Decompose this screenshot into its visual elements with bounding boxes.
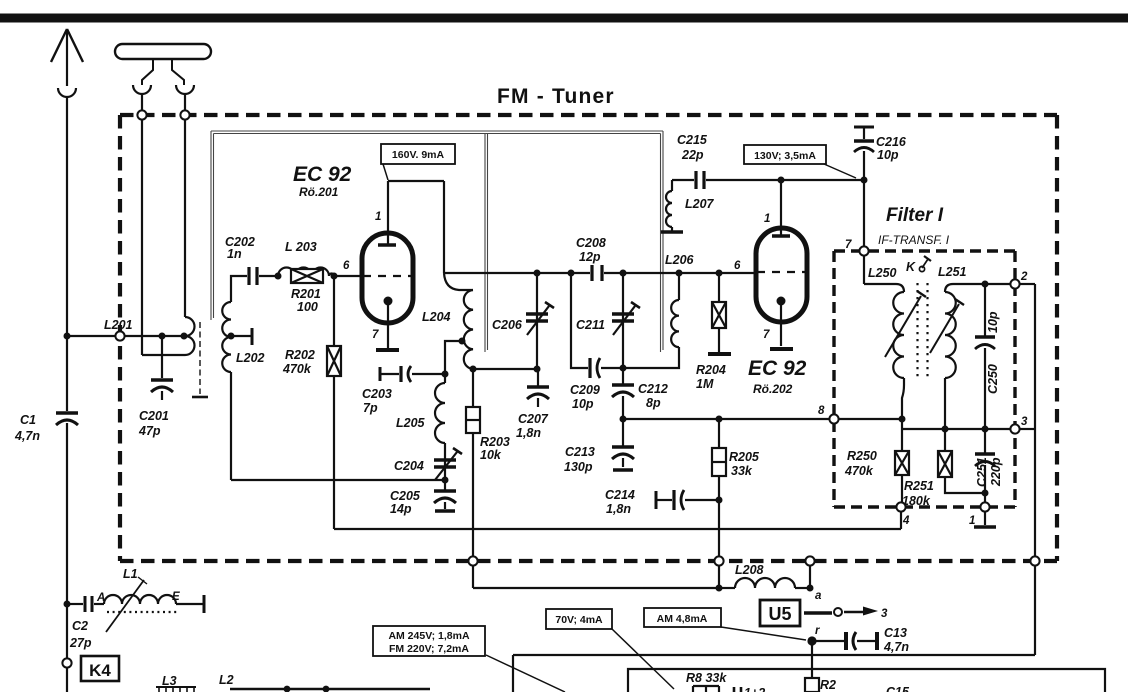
- svg-text:27p: 27p: [69, 636, 92, 650]
- svg-text:C207: C207: [518, 412, 549, 426]
- svg-text:1,8n: 1,8n: [516, 426, 541, 440]
- inductor L250: [868, 266, 926, 378]
- svg-text:E: E: [172, 591, 180, 603]
- svg-text:C214: C214: [605, 488, 635, 502]
- svg-text:L1: L1: [123, 567, 138, 581]
- wire L202 bottom down: [230, 372, 232, 480]
- svg-text:7p: 7p: [363, 401, 378, 415]
- triode EC92 Roe.202: [748, 213, 807, 396]
- svg-text:33k: 33k: [731, 464, 753, 478]
- filter terminal circles: [859, 246, 868, 255]
- trimmer capacitor C204: [394, 374, 462, 480]
- inductor L208: [719, 563, 810, 588]
- capacitor C208: [576, 236, 606, 281]
- svg-text:10p: 10p: [986, 311, 1000, 333]
- svg-text:100: 100: [297, 300, 318, 314]
- junction dots filter: [778, 177, 989, 497]
- svg-text:47p: 47p: [138, 424, 161, 438]
- wire main bus tube1 anode to tube2 grid: [444, 272, 756, 274]
- wire L202 top to C202: [231, 276, 247, 302]
- svg-text:L 203: L 203: [285, 240, 317, 254]
- shield partition (thin): [211, 131, 663, 352]
- label box AM 4,8mA: [644, 608, 806, 640]
- wire dipole leads into FM box: [142, 94, 185, 355]
- svg-text:10p: 10p: [572, 397, 594, 411]
- svg-text:C251: C251: [975, 457, 989, 487]
- ground below node1: [984, 512, 986, 525]
- svg-text:A: A: [96, 592, 105, 604]
- svg-text:22p: 22p: [681, 148, 704, 162]
- coil L3 partial: [156, 674, 196, 692]
- svg-text:C212: C212: [638, 382, 668, 396]
- svg-text:AM 245V; 1,8mA: AM 245V; 1,8mA: [388, 630, 470, 642]
- capacitor C213: [564, 419, 634, 474]
- ferrite antenna L1: [96, 567, 204, 632]
- svg-text:L207: L207: [685, 197, 715, 211]
- resistor R250: [844, 449, 909, 503]
- inductor L206: [665, 253, 695, 347]
- svg-text:C206: C206: [492, 318, 523, 332]
- resistor R202: [282, 276, 341, 529]
- svg-text:C208: C208: [576, 236, 606, 250]
- svg-text:1: 1: [969, 515, 975, 527]
- svg-text:FM - Tuner: FM - Tuner: [497, 85, 615, 108]
- capacitor C202: [225, 235, 278, 285]
- svg-text:3: 3: [881, 608, 888, 620]
- svg-text:C1: C1: [20, 413, 36, 427]
- svg-text:C2: C2: [72, 619, 88, 633]
- wire node a stub: [809, 565, 811, 588]
- svg-text:1+2: 1+2: [744, 686, 765, 692]
- svg-text:R2: R2: [820, 678, 836, 692]
- svg-text:C215: C215: [677, 133, 708, 147]
- wire bottom row y588: [473, 587, 722, 589]
- wire L251 bottom to node3 row: [944, 378, 946, 429]
- FM-Tuner dashed enclosure: [120, 115, 1057, 561]
- svg-text:C211: C211: [576, 318, 605, 332]
- wire r down to R2: [811, 641, 813, 678]
- wire antenna down-lead x67: [66, 97, 68, 692]
- wire node2 to right rail: [1019, 283, 1035, 285]
- inductor L203: [278, 240, 334, 276]
- svg-text:130V; 3,5mA: 130V; 3,5mA: [754, 150, 816, 162]
- svg-text:L206: L206: [665, 253, 695, 267]
- svg-text:3: 3: [1021, 416, 1028, 428]
- inductor L207: [661, 180, 715, 232]
- svg-text:K4: K4: [89, 661, 111, 680]
- adjustable core between L201 and L202: [192, 322, 208, 397]
- switch to 3: [804, 607, 888, 621]
- svg-text:1: 1: [764, 213, 770, 225]
- wire node7 to L250: [864, 255, 904, 292]
- label box 160V 9mA: [381, 144, 455, 180]
- terminal circles on FM box bottom edge: [468, 556, 477, 565]
- capacitor C201: [138, 336, 173, 438]
- svg-text:10k: 10k: [480, 448, 502, 462]
- wire grid to tube1: [334, 275, 360, 277]
- AF unit box: [628, 669, 1105, 692]
- svg-text:14p: 14p: [390, 502, 412, 516]
- svg-text:L208: L208: [735, 563, 764, 577]
- svg-text:1M: 1M: [696, 377, 714, 391]
- triode EC92 Roe.201: [293, 163, 413, 350]
- resistor R203: [466, 369, 510, 588]
- svg-text:220p: 220p: [989, 457, 1003, 487]
- capacitor C207: [516, 369, 549, 440]
- svg-text:10p: 10p: [877, 148, 899, 162]
- wire C204 junction to L202: [231, 479, 445, 481]
- svg-text:L2: L2: [219, 673, 234, 687]
- svg-text:470k: 470k: [282, 362, 312, 376]
- svg-text:4,7n: 4,7n: [14, 429, 40, 443]
- node junction dots left: [64, 273, 338, 340]
- coil L2 partial wire: [219, 673, 430, 692]
- label box AM/FM voltages: [373, 626, 565, 692]
- svg-text:R202: R202: [285, 348, 315, 362]
- svg-text:1: 1: [375, 211, 381, 223]
- label box 70V 4mA: [546, 609, 674, 689]
- label box 130V 3,5mA: [744, 145, 856, 178]
- wire node4 drop to return: [900, 511, 902, 529]
- terminal circle on FM box left edge: [115, 331, 124, 340]
- inductor L251: [930, 265, 967, 378]
- capacitor C214: [605, 488, 719, 516]
- wire anode tube1 up and over to L204: [388, 181, 444, 273]
- wire node8 to R250: [838, 418, 902, 420]
- svg-text:a: a: [815, 590, 822, 602]
- trimmer capacitor C211: [576, 273, 640, 368]
- junction dots bottom left: [64, 601, 71, 608]
- svg-text:R205: R205: [729, 450, 760, 464]
- capacitor C250: [975, 284, 1000, 429]
- wire L204 bottom row: [473, 368, 540, 370]
- svg-text:R201: R201: [291, 287, 321, 301]
- svg-text:1,8n: 1,8n: [606, 502, 631, 516]
- svg-text:12p: 12p: [579, 250, 601, 264]
- svg-text:C13: C13: [884, 626, 907, 640]
- capacitor C13: [812, 626, 909, 654]
- svg-text:R250: R250: [847, 449, 877, 463]
- svg-text:L205: L205: [396, 416, 426, 430]
- wire down to filter node 7: [863, 180, 865, 247]
- inductor L204: [422, 273, 473, 369]
- svg-text:L201: L201: [104, 318, 133, 332]
- dipole antenna symbol: [115, 44, 211, 94]
- capacitor C2: [67, 596, 104, 650]
- capacitor C1: [14, 413, 78, 443]
- wire plate supply row y180: [706, 179, 864, 181]
- wire node3 row: [902, 428, 1011, 430]
- svg-text:C201: C201: [139, 409, 169, 423]
- svg-text:L251: L251: [938, 265, 967, 279]
- svg-text:C209: C209: [570, 383, 600, 397]
- resistor R204: [696, 273, 731, 391]
- svg-text:Filter I: Filter I: [886, 205, 944, 226]
- svg-text:r: r: [815, 625, 820, 637]
- inductor L205: [396, 383, 445, 443]
- svg-text:L202: L202: [236, 351, 265, 365]
- top border bar: [0, 14, 1128, 23]
- capacitor C203: [362, 366, 445, 415]
- svg-text:130p: 130p: [564, 460, 593, 474]
- capacitor C205: [390, 480, 456, 516]
- IF transformer core: [918, 283, 928, 380]
- svg-text:EC 92: EC 92: [748, 357, 807, 380]
- trimmer capacitor C206: [492, 273, 554, 369]
- capacitor C216: [854, 127, 907, 180]
- inductor L201: [104, 317, 195, 355]
- junction dots stage1: [442, 338, 541, 484]
- Filter I dashed box: [834, 251, 1015, 507]
- svg-text:L3: L3: [162, 674, 177, 688]
- terminal circles dipole on FM box top edge: [137, 110, 146, 119]
- terminal K4: [62, 656, 119, 681]
- svg-text:Rö.201: Rö.201: [299, 185, 339, 199]
- svg-text:C15: C15: [886, 685, 910, 692]
- wire L251 top to node2 row: [945, 284, 1015, 292]
- resistor R205: [712, 419, 760, 588]
- svg-text:L250: L250: [868, 266, 897, 280]
- svg-text:7: 7: [372, 329, 379, 341]
- svg-text:AM 4,8mA: AM 4,8mA: [657, 613, 708, 625]
- svg-text:C205: C205: [390, 489, 421, 503]
- resistor R2: [805, 678, 836, 692]
- svg-text:L204: L204: [422, 310, 451, 324]
- svg-text:4,7n: 4,7n: [883, 640, 909, 654]
- wire anode tube2 up: [780, 180, 782, 235]
- terminal U5: [760, 600, 800, 626]
- svg-text:Rö.202: Rö.202: [753, 382, 793, 396]
- svg-text:2: 2: [1020, 271, 1028, 283]
- svg-text:FM 220V; 7,2mA: FM 220V; 7,2mA: [389, 643, 469, 655]
- svg-text:IF-TRANSF. I: IF-TRANSF. I: [878, 233, 950, 247]
- wire node3 to right rail: [1019, 428, 1035, 430]
- resistor R8: [686, 671, 727, 692]
- svg-text:1n: 1n: [227, 247, 242, 261]
- svg-text:C204: C204: [394, 459, 424, 473]
- svg-text:C213: C213: [565, 445, 595, 459]
- svg-text:C216: C216: [876, 135, 907, 149]
- svg-text:70V; 4mA: 70V; 4mA: [555, 614, 603, 626]
- svg-text:6: 6: [734, 260, 741, 272]
- svg-text:K: K: [906, 260, 916, 274]
- svg-text:160V. 9mA: 160V. 9mA: [392, 149, 445, 161]
- wire input bus y337: [67, 335, 184, 337]
- svg-text:8p: 8p: [646, 396, 661, 410]
- wire L204 tap to C203 junction: [445, 341, 462, 374]
- capacitor C209: [570, 273, 623, 411]
- svg-text:8: 8: [818, 405, 825, 417]
- resistor R251: [902, 429, 985, 508]
- wire AGC row y419: [623, 418, 830, 420]
- capacitor fragment bottom: [734, 686, 765, 692]
- svg-text:6: 6: [343, 260, 350, 272]
- capacitor C251: [975, 429, 1003, 503]
- wire right rail down: [513, 284, 1035, 692]
- svg-text:R204: R204: [696, 363, 726, 377]
- wire L250 bottom to node8 row: [902, 378, 904, 451]
- inductor L202: [222, 302, 264, 372]
- resistor R201: [291, 269, 323, 314]
- junction dots mid: [534, 270, 814, 592]
- svg-text:R203: R203: [480, 435, 510, 449]
- antenna arrow terminal: [51, 29, 83, 97]
- svg-text:U5: U5: [768, 604, 791, 624]
- svg-text:C250: C250: [986, 364, 1000, 394]
- svg-text:R8 33k: R8 33k: [686, 671, 727, 685]
- svg-text:C203: C203: [362, 387, 392, 401]
- svg-text:EC 92: EC 92: [293, 163, 352, 186]
- svg-text:R251: R251: [904, 479, 934, 493]
- svg-text:7: 7: [845, 239, 852, 251]
- svg-text:7: 7: [763, 329, 770, 341]
- capacitor C212: [612, 368, 668, 419]
- K adjust symbol: [906, 256, 931, 274]
- capacitor C215: [672, 133, 708, 189]
- svg-text:470k: 470k: [844, 464, 874, 478]
- svg-text:4: 4: [902, 515, 910, 527]
- wire C212 row to L206: [623, 347, 679, 368]
- wire long return y529: [334, 528, 901, 530]
